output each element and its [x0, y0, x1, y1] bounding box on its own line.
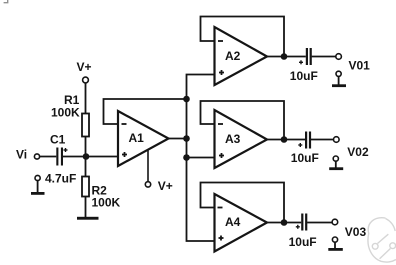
svg-text:V+: V+	[158, 179, 173, 193]
junction A3 output	[281, 136, 288, 143]
svg-text:A2: A2	[225, 49, 241, 63]
op-amp A3	[215, 110, 268, 168]
junction bus A1 output	[183, 135, 190, 142]
terminal V02	[334, 137, 340, 143]
watermark logo bottom-right	[368, 218, 396, 262]
terminal V03	[332, 219, 338, 225]
wire A1 feedback loop	[104, 99, 187, 124]
wire cap3 to V03 terminal	[307, 222, 332, 224]
wire Vi to C1	[40, 156, 57, 158]
wire bus to A3 plus	[187, 157, 215, 159]
wire C1 to node	[63, 156, 118, 158]
junction A2 output	[281, 53, 288, 60]
terminal A1 V+	[145, 182, 150, 187]
svg-text:Vi: Vi	[16, 148, 27, 162]
op-amp A1	[118, 111, 169, 166]
wire A1 output to bus	[167, 138, 187, 140]
wire cap1 to V01 terminal	[312, 56, 336, 58]
svg-text:10uF: 10uF	[291, 151, 319, 165]
svg-text:V02: V02	[347, 145, 369, 159]
junction bus A3 plus	[183, 154, 190, 161]
terminal ground V02	[329, 156, 343, 170]
wire A2 output to cap	[265, 56, 306, 58]
terminal ground V01	[332, 71, 346, 87]
capacitor Cout2 10uF	[298, 132, 311, 149]
svg-text:4.7uF: 4.7uF	[45, 171, 76, 185]
wire cap2 to V02 terminal	[311, 139, 334, 141]
ground R2	[77, 217, 99, 220]
terminal V+ top	[83, 77, 89, 83]
svg-text:10uF: 10uF	[290, 69, 318, 83]
junction A4 output	[281, 219, 288, 226]
svg-text:V03: V03	[345, 225, 367, 239]
junction bus A1 feedback	[183, 96, 190, 103]
capacitor Cout3 10uF	[296, 214, 308, 231]
wire A1 V+ stem	[147, 150, 149, 182]
svg-text:V01: V01	[349, 59, 371, 73]
svg-text:10uF: 10uF	[289, 235, 317, 249]
svg-text:100K: 100K	[51, 106, 80, 120]
capacitor Cout1 10uF	[299, 48, 312, 65]
wire A3 feedback loop	[201, 101, 285, 140]
svg-text:A4: A4	[225, 215, 241, 229]
terminal input ground	[31, 175, 45, 194]
resistor R1	[82, 114, 89, 137]
wire A4 feedback loop	[201, 183, 285, 223]
wire node to R2	[85, 156, 87, 177]
svg-text:A1: A1	[129, 131, 145, 145]
capacitor C1	[56, 148, 67, 166]
wire bus vertical	[187, 75, 215, 242]
terminal V01	[336, 54, 342, 60]
terminal ground V03	[328, 237, 343, 251]
svg-text:100K: 100K	[92, 195, 121, 209]
wire R2 to ground	[85, 197, 87, 218]
svg-text:A3: A3	[225, 132, 241, 146]
resistor R2	[82, 177, 89, 197]
wire A3 output to cap	[265, 139, 305, 141]
wire V+ stem to R1	[85, 83, 87, 113]
wire R1 to node	[85, 137, 87, 158]
junction node input	[83, 153, 90, 160]
op-amp A4	[215, 194, 268, 252]
op-amp A2	[215, 27, 268, 85]
svg-text:C1: C1	[50, 132, 66, 146]
wire A2 feedback loop	[201, 17, 285, 57]
svg-text:V+: V+	[77, 60, 92, 74]
watermark corner mark top-left	[4, 0, 8, 3]
terminal Vi	[34, 154, 39, 159]
wire A4 output to cap	[265, 222, 301, 224]
